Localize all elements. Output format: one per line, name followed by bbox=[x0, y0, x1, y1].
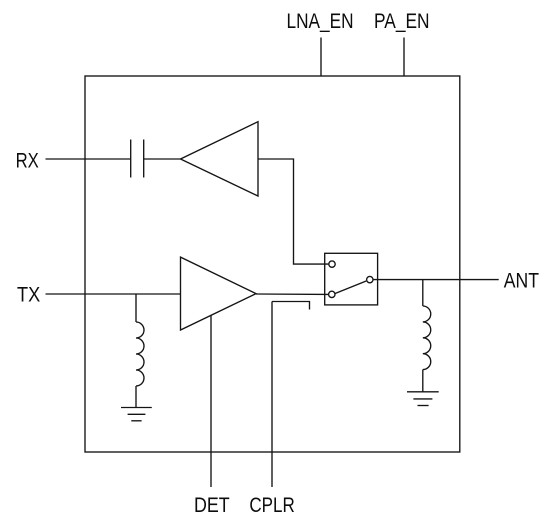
inductor L2 ANT shunt coil bbox=[423, 306, 431, 370]
wire RX input bbox=[46, 158, 131, 160]
switch contact ANT common (pin 3) bbox=[367, 276, 373, 282]
inductor L1 stem bottom bbox=[135, 386, 137, 408]
capacitor C1 RX DC-block bbox=[131, 140, 144, 178]
amplifier U2 PA (points right) bbox=[181, 257, 257, 330]
wire capacitor to LNA output bbox=[144, 158, 181, 160]
switch contact RX (pin 1) bbox=[329, 261, 335, 267]
op-amp U1 LNA (points left) bbox=[181, 122, 259, 196]
svg-text:CPLR: CPLR bbox=[249, 494, 294, 517]
ground GND1 (TX shunt) bbox=[121, 408, 152, 421]
inductor L2 stem top bbox=[422, 280, 424, 306]
svg-text:TX: TX bbox=[17, 284, 40, 307]
module boundary box bbox=[85, 76, 460, 452]
svg-text:DET: DET bbox=[194, 494, 230, 517]
svg-text:LNA_EN: LNA_EN bbox=[287, 10, 354, 33]
svg-text:ANT: ANT bbox=[504, 269, 539, 292]
wire PA_EN pin bbox=[403, 38, 405, 77]
wire CPLR pin bbox=[271, 302, 273, 488]
svg-text:RX: RX bbox=[16, 150, 39, 173]
ground GND2 (ANT shunt) bbox=[407, 392, 439, 406]
inductor L1 TX shunt coil bbox=[136, 322, 144, 386]
wire switch to ANT bbox=[373, 279, 499, 281]
coupler coupled-line bbox=[272, 302, 310, 310]
wire PA output to switch bbox=[256, 293, 329, 295]
switch contact TX (pin 2) bbox=[329, 291, 335, 297]
inductor L1 stem top bbox=[135, 294, 137, 322]
wire DET sense from PA bbox=[210, 315, 212, 487]
svg-text:PA_EN: PA_EN bbox=[374, 10, 430, 33]
wire TX input bbox=[46, 293, 181, 295]
switch arm bbox=[335, 281, 366, 294]
wire LNA_EN pin bbox=[320, 38, 322, 77]
inductor L2 stem bottom bbox=[422, 370, 424, 392]
switch SW1 box bbox=[325, 253, 378, 305]
wire LNA input from switch bbox=[258, 159, 329, 264]
